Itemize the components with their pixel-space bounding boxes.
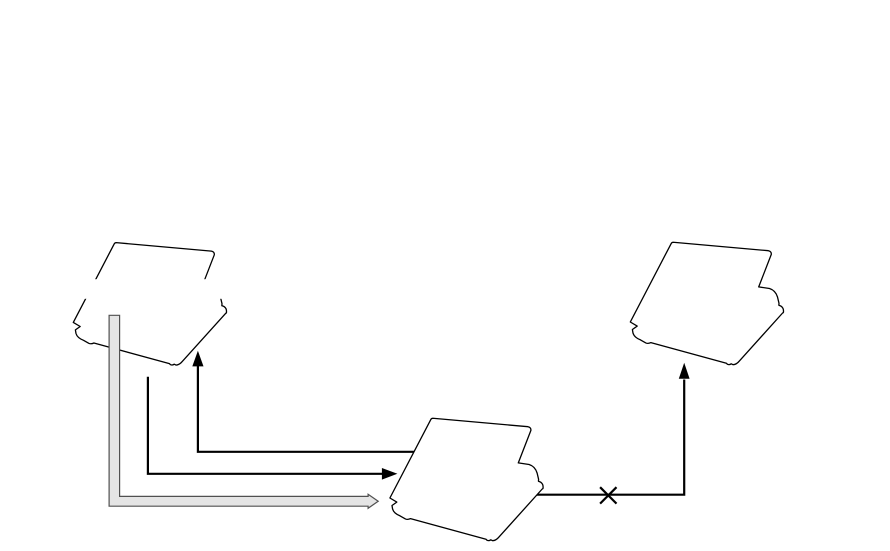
- wire arrow B elbow (below left laptop to middle laptop): [148, 377, 383, 474]
- arrowhead C (up, into right laptop): [679, 363, 690, 379]
- laptop middle: [390, 418, 543, 540]
- laptop right: [630, 242, 783, 364]
- arrowhead A (up, into left laptop): [192, 351, 203, 367]
- white band masking left laptop hinge: [58, 279, 240, 299]
- X mark on wire C: [600, 487, 616, 503]
- laptop left: [73, 243, 226, 365]
- wire arrow A elbow (middle laptop to left laptop): [198, 365, 416, 452]
- gray block arrow (elbow, pointing right at middle laptop): [109, 315, 378, 508]
- wire arrow C elbow (middle laptop to right laptop): [534, 380, 684, 495]
- arrowhead B (right, into middle laptop): [382, 468, 398, 480]
